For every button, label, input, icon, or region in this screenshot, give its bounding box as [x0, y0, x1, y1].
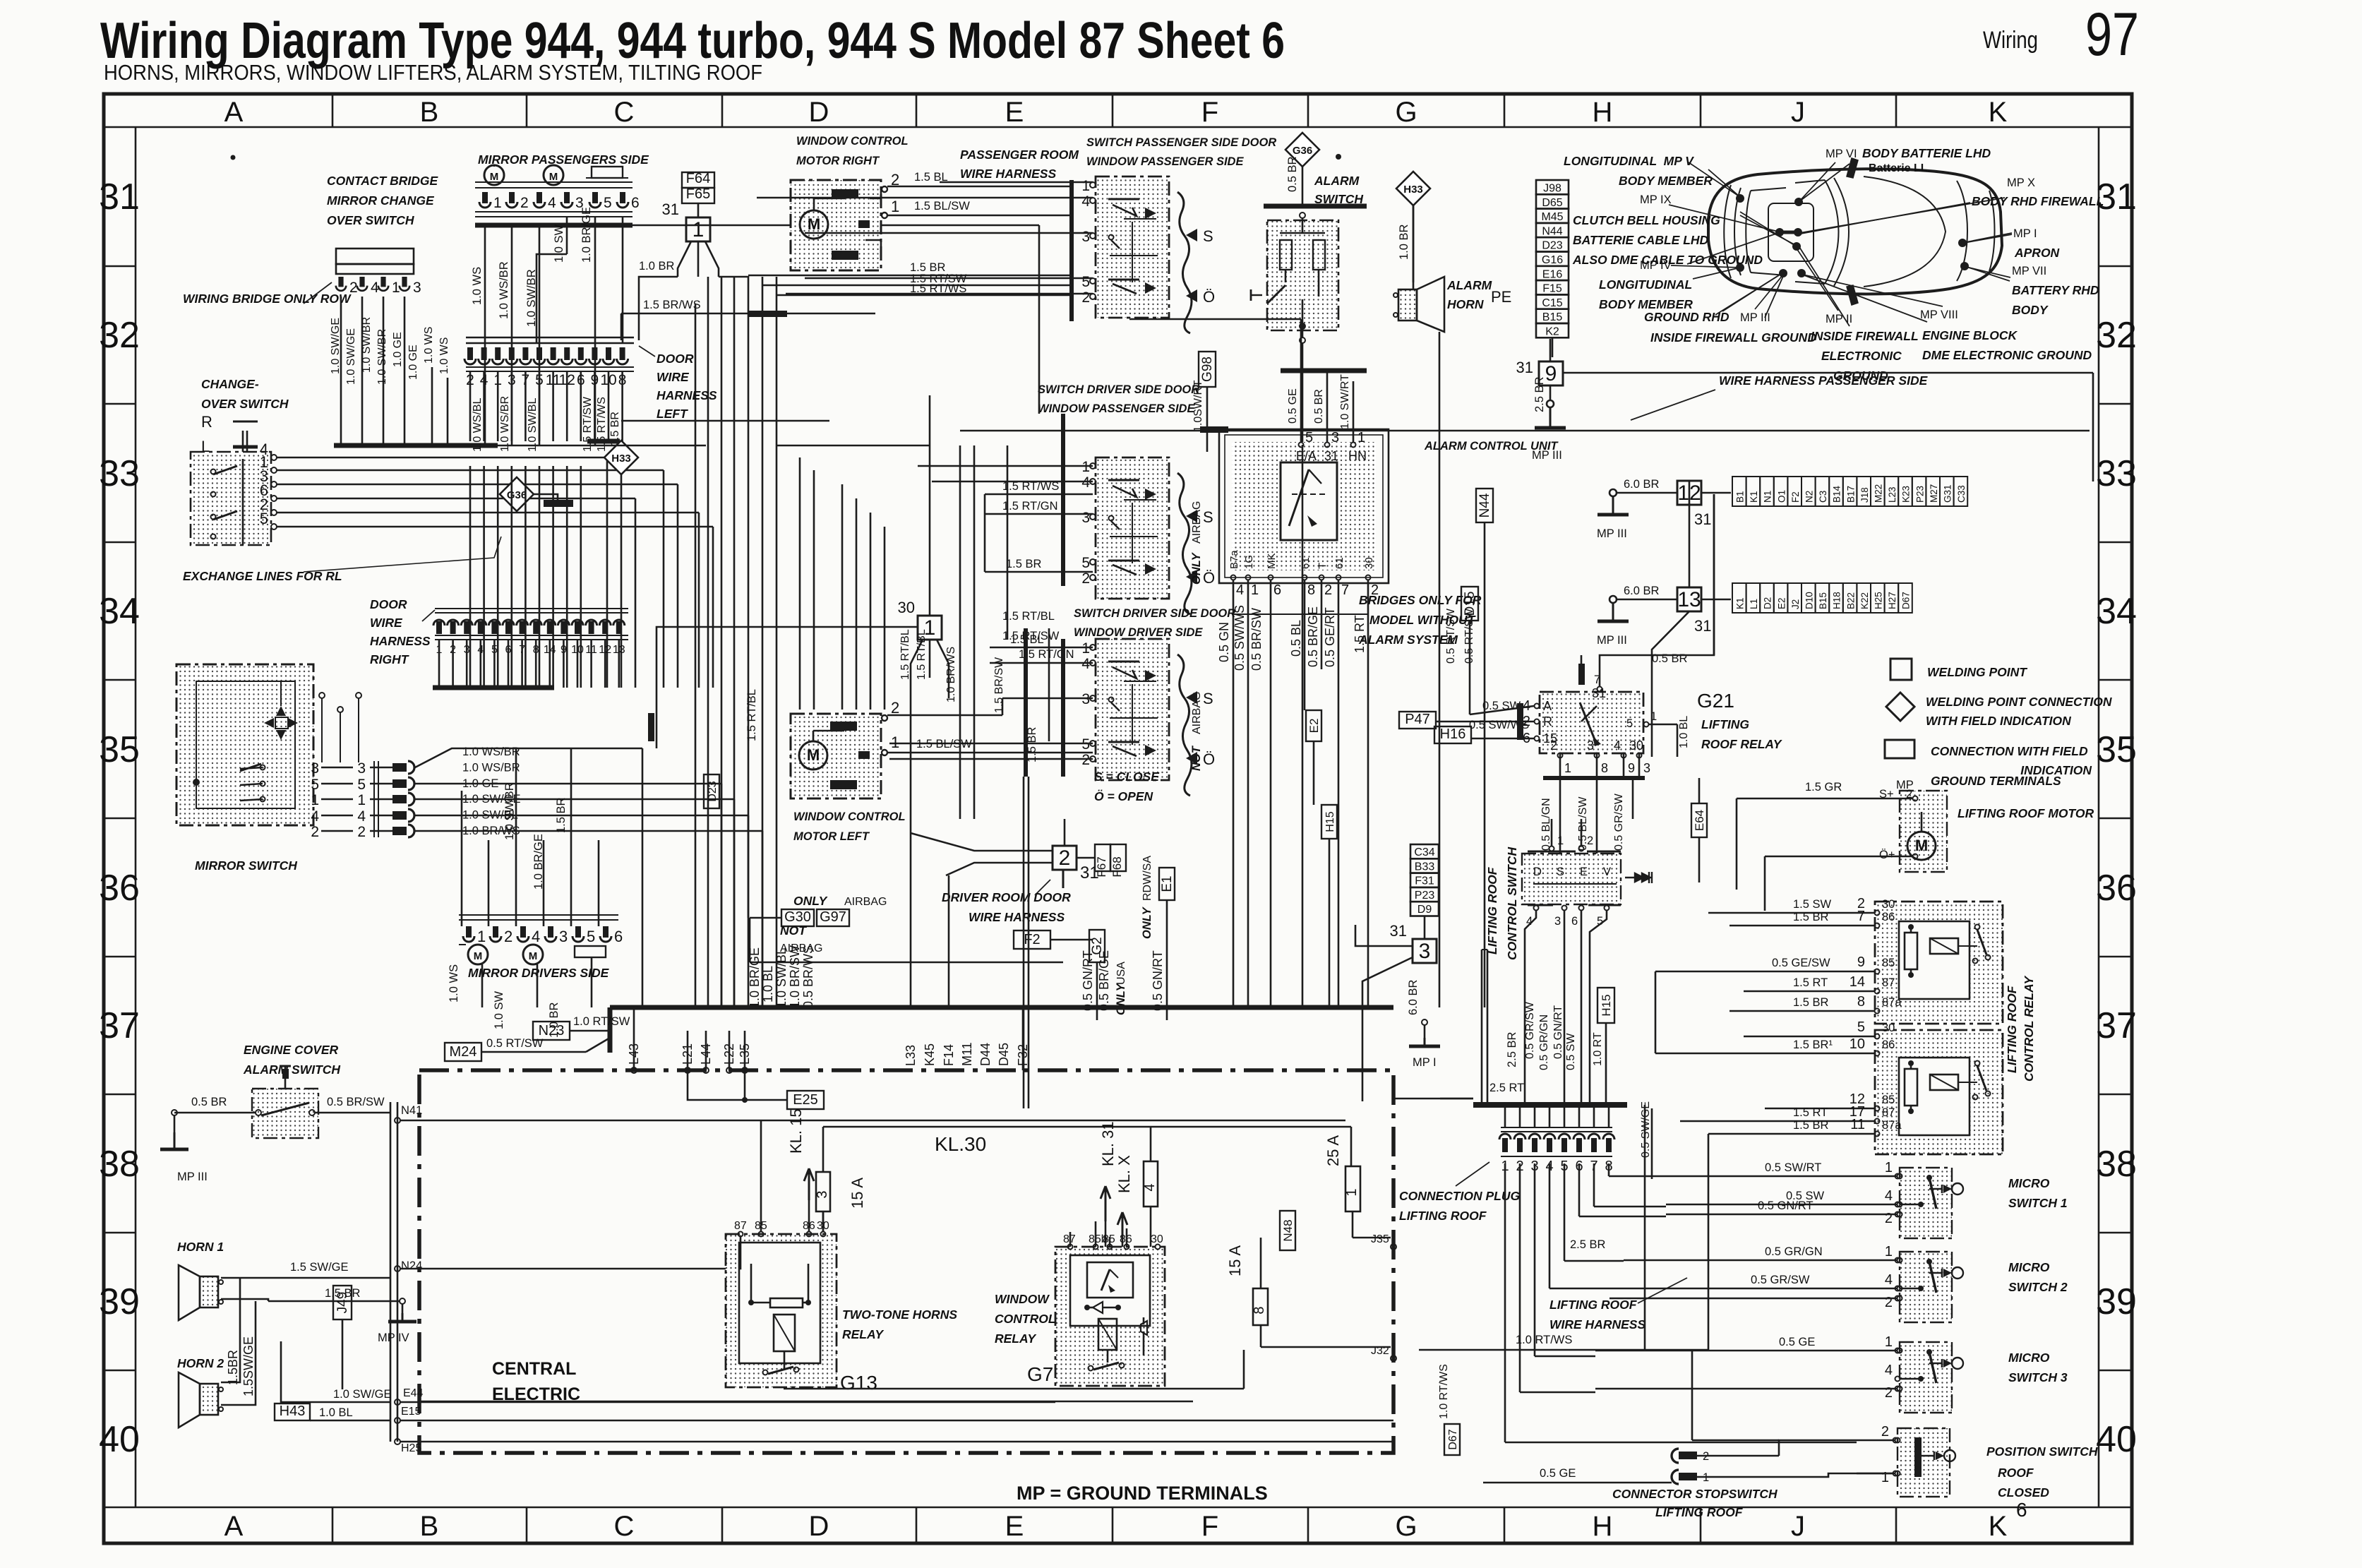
svg-text:G36: G36 [507, 489, 527, 501]
svg-text:BODY MEMBER: BODY MEMBER [1619, 174, 1713, 188]
svg-text:1: 1 [1251, 582, 1259, 598]
svg-text:30: 30 [1882, 898, 1895, 911]
svg-text:N1: N1 [1763, 491, 1773, 503]
svg-text:11: 11 [1850, 1117, 1865, 1132]
svg-text:H43: H43 [280, 1404, 306, 1419]
svg-text:5: 5 [1857, 1019, 1865, 1035]
svg-text:1.0 SW/GE: 1.0 SW/GE [345, 328, 357, 385]
svg-text:1: 1 [1885, 1244, 1893, 1259]
svg-text:0.5 GN/RT: 0.5 GN/RT [1081, 950, 1095, 1011]
svg-text:DRIVER ROOM DOOR: DRIVER ROOM DOOR [942, 890, 1071, 904]
svg-text:1.5 BL/SW: 1.5 BL/SW [916, 738, 972, 750]
svg-text:M45: M45 [1541, 211, 1563, 223]
svg-text:AIRBAG: AIRBAG [844, 896, 887, 908]
svg-text:WIRE HARNESS: WIRE HARNESS [960, 167, 1056, 181]
svg-text:0.5 BR/GE: 0.5 BR/GE [1097, 950, 1111, 1011]
svg-text:ALARM CONTROL UNIT: ALARM CONTROL UNIT [1424, 440, 1559, 453]
svg-text:1.0 RT/WS: 1.0 RT/WS [1516, 1334, 1572, 1346]
svg-text:A: A [1543, 699, 1552, 713]
svg-text:5: 5 [587, 928, 595, 945]
svg-text:A: A [224, 97, 244, 128]
svg-text:SWITCH DRIVER SIDE DOOR: SWITCH DRIVER SIDE DOOR [1074, 607, 1235, 620]
svg-text:8: 8 [1307, 582, 1315, 598]
svg-text:WINDOW CONTROL: WINDOW CONTROL [796, 135, 909, 148]
svg-text:61: 61 [1333, 557, 1345, 569]
svg-text:HARNESS: HARNESS [370, 634, 431, 648]
svg-text:MK: MK [1266, 553, 1278, 570]
svg-text:15 A: 15 A [1226, 1245, 1244, 1276]
svg-text:G13: G13 [840, 1372, 877, 1394]
svg-text:CONNECTOR STOPSWITCH: CONNECTOR STOPSWITCH [1612, 1487, 1778, 1501]
svg-text:LIFTING ROOF: LIFTING ROOF [2005, 985, 2019, 1073]
svg-text:14: 14 [1850, 974, 1865, 990]
svg-text:4: 4 [1081, 474, 1090, 491]
svg-text:H16: H16 [1440, 726, 1466, 742]
svg-text:0.5 GE: 0.5 GE [1287, 388, 1299, 424]
svg-text:1.5SW/GE: 1.5SW/GE [241, 1336, 256, 1396]
svg-text:6: 6 [2016, 1499, 2027, 1521]
svg-text:GROUND RHD: GROUND RHD [1644, 310, 1729, 324]
svg-text:1.0 BL: 1.0 BL [1678, 716, 1690, 748]
svg-text:87: 87 [1882, 1106, 1895, 1119]
svg-text:G: G [1395, 1511, 1417, 1542]
svg-text:B: B [420, 1511, 439, 1542]
svg-text:0.5 BL/GN: 0.5 BL/GN [1540, 798, 1552, 851]
svg-text:F67: F67 [1095, 856, 1108, 877]
svg-text:MODEL WITHOUT: MODEL WITHOUT [1369, 613, 1476, 627]
svg-text:G21: G21 [1697, 690, 1734, 712]
svg-text:G: G [1395, 97, 1417, 128]
svg-text:ALARM SYSTEM: ALARM SYSTEM [1358, 633, 1458, 647]
svg-text:G31: G31 [1943, 484, 1953, 503]
svg-text:31: 31 [1694, 617, 1711, 635]
svg-text:2: 2 [1885, 1295, 1893, 1310]
svg-text:BODY: BODY [2012, 303, 2049, 317]
svg-text:ALARM: ALARM [1314, 174, 1360, 188]
svg-text:D65: D65 [1542, 197, 1562, 209]
svg-text:2: 2 [1081, 752, 1090, 768]
svg-text:MIRROR CHANGE: MIRROR CHANGE [327, 193, 435, 208]
svg-text:MP IX: MP IX [1640, 193, 1672, 206]
svg-text:0.5 BR: 0.5 BR [1313, 389, 1325, 424]
svg-text:N44: N44 [1477, 493, 1492, 517]
svg-text:K22: K22 [1859, 592, 1870, 609]
svg-text:40: 40 [99, 1419, 140, 1460]
svg-text:7: 7 [1341, 582, 1349, 598]
svg-text:4: 4 [1081, 193, 1090, 210]
svg-text:1.0 WS: 1.0 WS [448, 964, 460, 1003]
svg-text:M11: M11 [960, 1042, 974, 1066]
svg-text:1.0 SW: 1.0 SW [493, 991, 505, 1029]
svg-text:E15: E15 [401, 1406, 421, 1418]
svg-text:3: 3 [357, 760, 366, 777]
svg-text:0.5 GN/RT: 0.5 GN/RT [1758, 1199, 1814, 1212]
svg-text:6.0 BR: 6.0 BR [1624, 585, 1660, 597]
svg-text:0.5 BR/SW: 0.5 BR/SW [327, 1096, 385, 1108]
svg-text:3: 3 [1587, 738, 1594, 753]
svg-text:1: 1 [693, 218, 705, 241]
svg-text:1.5 SW/GE: 1.5 SW/GE [290, 1261, 349, 1274]
svg-text:1.0 WS: 1.0 WS [471, 267, 484, 305]
svg-text:1.0 WS/BR: 1.0 WS/BR [499, 396, 511, 452]
svg-text:SWITCH: SWITCH [1314, 192, 1363, 206]
svg-text:B1: B1 [1735, 491, 1746, 503]
svg-text:MICRO: MICRO [2008, 1176, 2050, 1190]
svg-text:32: 32 [99, 315, 140, 356]
svg-text:0.5 BR/GE: 0.5 BR/GE [1306, 606, 1320, 667]
svg-text:2: 2 [1885, 1385, 1893, 1401]
svg-text:30: 30 [1363, 557, 1375, 569]
svg-text:1.0 BR/SW: 1.0 BR/SW [788, 945, 802, 1008]
svg-text:1.0 BR: 1.0 BR [1398, 224, 1410, 260]
svg-text:1.0 WS/BL: 1.0 WS/BL [472, 397, 484, 452]
svg-text:N44: N44 [1542, 225, 1562, 237]
svg-text:D67: D67 [1901, 592, 1912, 609]
svg-text:C: C [614, 1511, 635, 1542]
svg-text:MP VII: MP VII [2012, 265, 2046, 277]
svg-text:0.5 SW/GE: 0.5 SW/GE [1640, 1101, 1652, 1158]
svg-text:1.5 BL/SW: 1.5 BL/SW [914, 200, 970, 213]
svg-text:WELDING POINT CONNECTION: WELDING POINT CONNECTION [1926, 695, 2112, 709]
svg-text:1.5 GR: 1.5 GR [1805, 781, 1842, 794]
svg-text:USA: USA [1115, 962, 1127, 985]
svg-text:E: E [1580, 866, 1588, 878]
svg-text:2.5 RT: 2.5 RT [1489, 1082, 1524, 1094]
svg-text:D2: D2 [1763, 597, 1773, 609]
svg-text:1.5 BR/SW: 1.5 BR/SW [993, 657, 1005, 713]
svg-text:D9: D9 [1417, 904, 1432, 916]
svg-text:4: 4 [1614, 738, 1621, 753]
svg-text:WITH FIELD INDICATION: WITH FIELD INDICATION [1926, 714, 2071, 728]
svg-text:G7: G7 [1027, 1363, 1053, 1385]
svg-text:CLUTCH BELL HOUSING: CLUTCH BELL HOUSING [1573, 213, 1720, 227]
svg-text:MICRO: MICRO [2008, 1351, 2050, 1365]
svg-text:4: 4 [1885, 1188, 1893, 1204]
svg-text:S: S [1203, 690, 1213, 707]
svg-text:38: 38 [99, 1144, 140, 1185]
svg-text:0.5 GE: 0.5 GE [1540, 1467, 1576, 1480]
svg-text:0.5 BR/WS: 0.5 BR/WS [801, 945, 815, 1008]
svg-text:M: M [807, 746, 820, 764]
svg-text:87a: 87a [1882, 996, 1902, 1009]
svg-text:C34: C34 [1414, 846, 1434, 858]
svg-text:RELAY: RELAY [995, 1331, 1036, 1346]
svg-text:39: 39 [99, 1281, 140, 1322]
svg-text:CONTACT BRIDGE: CONTACT BRIDGE [327, 174, 438, 188]
svg-text:C: C [614, 97, 635, 128]
svg-text:G16: G16 [1542, 254, 1563, 266]
svg-text:ALARM: ALARM [1446, 278, 1492, 292]
svg-text:6: 6 [631, 195, 640, 211]
svg-text:2: 2 [1885, 1211, 1893, 1226]
svg-text:3: 3 [1643, 761, 1650, 775]
svg-text:OVER SWITCH: OVER SWITCH [201, 397, 289, 411]
svg-text:1.5 RT/BL: 1.5 RT/BL [899, 629, 911, 680]
svg-text:DOOR: DOOR [657, 352, 694, 366]
svg-text:GROUND TERMINALS: GROUND TERMINALS [1931, 774, 2061, 788]
svg-text:5: 5 [604, 195, 612, 211]
svg-text:B33: B33 [1415, 861, 1435, 873]
svg-text:30: 30 [1151, 1233, 1163, 1245]
svg-text:1.0 WS/BR: 1.0 WS/BR [498, 261, 510, 319]
svg-text:H: H [1593, 97, 1613, 128]
svg-text:13: 13 [1677, 588, 1701, 611]
svg-text:G36: G36 [1293, 145, 1312, 157]
svg-text:2: 2 [1081, 289, 1090, 306]
svg-text:1: 1 [1081, 640, 1090, 657]
svg-text:33: 33 [99, 453, 140, 494]
svg-text:WIRE HARNESS PASSENGER SIDE: WIRE HARNESS PASSENGER SIDE [1719, 373, 1929, 388]
svg-text:3: 3 [1081, 691, 1090, 707]
svg-text:87a: 87a [1882, 1119, 1902, 1132]
svg-text:9: 9 [1628, 761, 1635, 775]
svg-text:BATTERIE CABLE LHD: BATTERIE CABLE LHD [1573, 233, 1709, 247]
svg-text:1.5 BR/WS: 1.5 BR/WS [643, 299, 701, 311]
svg-text:2: 2 [520, 195, 529, 211]
svg-text:0.5 BR/SW: 0.5 BR/SW [1249, 608, 1264, 671]
svg-text:1.0 RT/SW: 1.0 RT/SW [573, 1015, 630, 1028]
svg-text:86: 86 [1882, 1039, 1895, 1051]
svg-text:NOT: NOT [780, 923, 807, 938]
svg-text:0.5 RT/SW: 0.5 RT/SW [486, 1037, 544, 1050]
svg-text:1: 1 [1081, 178, 1090, 194]
svg-text:MP I: MP I [2013, 227, 2037, 240]
svg-text:1.5 BR: 1.5 BR [1793, 911, 1829, 923]
svg-text:MP I: MP I [1413, 1056, 1437, 1069]
svg-text:WINDOW DRIVER SIDE: WINDOW DRIVER SIDE [1074, 626, 1203, 639]
svg-text:1.0 SW/BR: 1.0 SW/BR [361, 317, 373, 373]
svg-text:37: 37 [99, 1005, 140, 1046]
svg-text:K2: K2 [1545, 326, 1559, 338]
svg-text:Batterie LL: Batterie LL [1869, 162, 1928, 174]
svg-text:J: J [1791, 97, 1805, 128]
svg-text:E25: E25 [793, 1092, 818, 1108]
svg-text:MP VIII: MP VIII [1920, 309, 1958, 321]
svg-text:33: 33 [2096, 453, 2137, 494]
svg-text:G30: G30 [784, 909, 811, 925]
svg-text:E: E [1005, 97, 1024, 128]
svg-text:Ö = OPEN: Ö = OPEN [1094, 789, 1153, 803]
svg-text:87: 87 [734, 1220, 747, 1232]
svg-text:V: V [1603, 866, 1611, 878]
svg-text:2: 2 [1059, 846, 1071, 870]
svg-text:C3: C3 [1818, 491, 1828, 503]
svg-text:0.5 GR/SW: 0.5 GR/SW [1751, 1274, 1810, 1286]
svg-text:0.5 SW: 0.5 SW [1482, 700, 1521, 712]
svg-text:2: 2 [1881, 1424, 1889, 1440]
svg-text:R: R [1543, 714, 1552, 729]
svg-text:MIRROR SWITCH: MIRROR SWITCH [195, 858, 297, 873]
svg-text:L23: L23 [1887, 486, 1898, 503]
svg-text:DOOR: DOOR [370, 597, 407, 611]
svg-text:2: 2 [1587, 834, 1593, 847]
svg-text:3: 3 [815, 1190, 830, 1198]
svg-text:4: 4 [1142, 1183, 1158, 1191]
svg-text:B: B [420, 97, 439, 128]
svg-text:T: T [1317, 563, 1329, 569]
svg-text:K1: K1 [1735, 597, 1746, 609]
svg-text:POSITION SWITCH: POSITION SWITCH [1986, 1444, 2098, 1459]
svg-text:WELDING POINT: WELDING POINT [1927, 665, 2027, 679]
svg-text:F2: F2 [1790, 491, 1801, 503]
svg-text:1.5 BR: 1.5 BR [1026, 726, 1038, 762]
svg-text:INSIDE FIREWALL GROUND: INSIDE FIREWALL GROUND [1650, 330, 1816, 345]
svg-text:MP III: MP III [1740, 311, 1770, 324]
svg-text:CONTROL SWITCH: CONTROL SWITCH [1505, 847, 1519, 960]
svg-text:BODY MEMBER: BODY MEMBER [1599, 297, 1693, 311]
svg-text:1G: 1G [1243, 555, 1255, 569]
svg-text:L1: L1 [1749, 599, 1759, 609]
svg-text:N2: N2 [1804, 491, 1815, 503]
svg-text:2: 2 [1324, 582, 1332, 598]
svg-text:F65: F65 [686, 186, 710, 202]
svg-text:H33: H33 [611, 453, 631, 465]
svg-text:ONLY: ONLY [1115, 982, 1127, 1015]
svg-text:C33: C33 [1956, 485, 1967, 503]
svg-text:1: 1 [311, 792, 319, 808]
svg-text:61: 61 [1300, 557, 1312, 569]
svg-text:8: 8 [1601, 761, 1608, 775]
svg-text:DME ELECTRONIC GROUND: DME ELECTRONIC GROUND [1922, 348, 2092, 362]
svg-text:1.0 BR: 1.0 BR [639, 260, 675, 273]
svg-text:1.5 BR: 1.5 BR [1793, 996, 1829, 1009]
svg-text:BATTERY RHD: BATTERY RHD [2012, 283, 2099, 297]
svg-text:TWO-TONE HORNS: TWO-TONE HORNS [842, 1307, 957, 1322]
svg-text:Ö: Ö [1203, 750, 1215, 768]
svg-text:M: M [474, 950, 483, 962]
svg-text:3: 3 [1419, 940, 1431, 963]
svg-text:MICRO: MICRO [2008, 1260, 2050, 1274]
svg-text:D: D [809, 97, 829, 128]
svg-text:ENGINE COVER: ENGINE COVER [244, 1043, 339, 1057]
svg-text:ENGINE BLOCK: ENGINE BLOCK [1922, 328, 2018, 342]
svg-text:25 A: 25 A [1324, 1135, 1342, 1166]
svg-text:0.5 GR/GN: 0.5 GR/GN [1765, 1245, 1823, 1258]
svg-text:F2: F2 [1024, 932, 1040, 947]
svg-text:LIFTING: LIFTING [1701, 717, 1749, 731]
svg-text:D45: D45 [997, 1043, 1011, 1066]
svg-text:38: 38 [2096, 1144, 2137, 1185]
svg-text:10: 10 [1850, 1036, 1865, 1052]
svg-text:HN: HN [1348, 449, 1367, 463]
svg-text:1.5BR: 1.5BR [226, 1350, 240, 1385]
svg-text:MP IV: MP IV [1640, 259, 1672, 272]
svg-text:N24: N24 [401, 1259, 422, 1272]
svg-text:WINDOW PASSENGER SIDE: WINDOW PASSENGER SIDE [1038, 402, 1195, 415]
svg-text:3: 3 [1081, 510, 1090, 526]
svg-text:MP VI: MP VI [1826, 148, 1857, 160]
svg-text:86: 86 [1882, 911, 1895, 923]
svg-text:MP = GROUND TERMINALS: MP = GROUND TERMINALS [1017, 1483, 1268, 1504]
svg-text:1.0 SW/GE: 1.0 SW/GE [330, 318, 342, 374]
svg-text:34: 34 [2096, 591, 2137, 632]
svg-text:1.0 RT: 1.0 RT [1592, 1032, 1604, 1066]
svg-text:OVER SWITCH: OVER SWITCH [327, 213, 414, 227]
svg-text:1.5 BR¹: 1.5 BR¹ [1793, 1039, 1833, 1051]
svg-text:2.5 BR: 2.5 BR [1570, 1238, 1606, 1251]
svg-text:37: 37 [2096, 1005, 2137, 1046]
svg-text:WINDOW PASSENGER SIDE: WINDOW PASSENGER SIDE [1086, 155, 1244, 168]
svg-text:0.5 GN/RT: 0.5 GN/RT [1151, 950, 1165, 1011]
svg-text:6.0 BR: 6.0 BR [1624, 478, 1660, 491]
svg-text:LONGITUDINAL: LONGITUDINAL [1599, 277, 1692, 292]
svg-text:31: 31 [662, 201, 679, 218]
svg-text:31: 31 [1592, 686, 1606, 700]
svg-text:G97: G97 [820, 909, 846, 925]
svg-text:2: 2 [311, 824, 319, 840]
svg-text:KL. 15: KL. 15 [787, 1108, 805, 1154]
svg-text:S: S [1557, 866, 1564, 878]
svg-text:1.0 SW/BR: 1.0 SW/BR [503, 782, 516, 840]
svg-text:WINDOW: WINDOW [995, 1292, 1050, 1306]
svg-text:6: 6 [1273, 582, 1281, 598]
svg-text:31: 31 [1390, 922, 1407, 940]
svg-text:36: 36 [99, 868, 140, 909]
svg-text:MP III: MP III [177, 1171, 208, 1183]
svg-text:M24: M24 [450, 1044, 477, 1060]
svg-text:5: 5 [1305, 430, 1313, 445]
svg-text:K23: K23 [1901, 486, 1912, 503]
svg-text:P23: P23 [1914, 486, 1925, 503]
svg-text:A: A [224, 1511, 244, 1542]
svg-text:E2: E2 [1776, 597, 1787, 609]
svg-text:RDW/SA: RDW/SA [1141, 856, 1153, 901]
svg-text:N48: N48 [1281, 1219, 1295, 1241]
svg-text:HORNS, MIRRORS, WINDOW LIFTERS: HORNS, MIRRORS, WINDOW LIFTERS, ALARM SY… [104, 60, 762, 85]
svg-text:F31: F31 [1415, 875, 1434, 887]
svg-text:BODY RHD FIREWALL: BODY RHD FIREWALL [1972, 194, 2104, 208]
svg-text:D44: D44 [978, 1043, 993, 1066]
svg-text:SWITCH DRIVER SIDE DOOR: SWITCH DRIVER SIDE DOOR [1038, 383, 1199, 396]
svg-text:J49: J49 [335, 1292, 350, 1314]
svg-text:H25: H25 [401, 1442, 421, 1454]
svg-text:APRON: APRON [2014, 246, 2060, 260]
svg-text:M: M [549, 171, 558, 183]
svg-text:3: 3 [559, 928, 568, 945]
svg-text:4: 4 [357, 808, 366, 825]
svg-text:D10: D10 [1804, 592, 1815, 609]
svg-text:SWITCH 3: SWITCH 3 [2008, 1370, 2068, 1384]
svg-text:F: F [1201, 1511, 1218, 1542]
svg-text:Ö: Ö [1203, 569, 1215, 587]
svg-text:0.5 GE: 0.5 GE [1779, 1336, 1815, 1348]
svg-text:M: M [1915, 837, 1928, 854]
svg-text:0.5 GR/SW: 0.5 GR/SW [1613, 793, 1625, 851]
svg-text:31: 31 [1694, 510, 1711, 528]
svg-text:ELECTRONIC: ELECTRONIC [1821, 349, 1902, 363]
svg-text:F14: F14 [942, 1044, 956, 1066]
svg-text:1.0 SW/BL: 1.0 SW/BL [527, 397, 539, 452]
svg-text:E: E [1005, 1511, 1024, 1542]
svg-text:MIRROR PASSENGERS SIDE: MIRROR PASSENGERS SIDE [478, 152, 649, 167]
svg-text:H27: H27 [1887, 592, 1898, 609]
svg-text:MOTOR LEFT: MOTOR LEFT [793, 830, 870, 843]
svg-text:1: 1 [1357, 430, 1365, 445]
svg-text:6: 6 [614, 928, 623, 945]
svg-text:F15: F15 [1542, 283, 1562, 295]
svg-text:RELAY: RELAY [842, 1327, 884, 1341]
svg-text:2.5 BR: 2.5 BR [1506, 1031, 1518, 1067]
svg-text:MP III: MP III [1597, 527, 1627, 540]
svg-text:0.5 SW/RT: 0.5 SW/RT [1765, 1161, 1821, 1174]
svg-text:O1: O1 [1776, 490, 1787, 503]
svg-text:ONLY: ONLY [1141, 906, 1153, 939]
svg-text:KL. 31: KL. 31 [1099, 1121, 1117, 1166]
svg-text:5: 5 [357, 777, 366, 793]
svg-text:SWITCH 2: SWITCH 2 [2008, 1280, 2068, 1294]
svg-text:0.5 GN: 0.5 GN [1217, 622, 1231, 662]
svg-text:1.5 BR: 1.5 BR [555, 797, 568, 833]
